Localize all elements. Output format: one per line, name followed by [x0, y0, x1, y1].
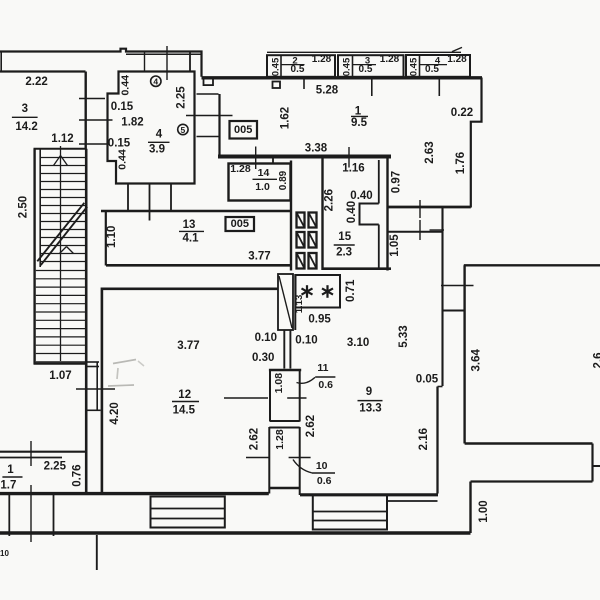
svg-text:005: 005 — [234, 124, 252, 136]
svg-text:2.3: 2.3 — [336, 246, 352, 258]
svg-text:4: 4 — [153, 77, 158, 87]
svg-text:0.45: 0.45 — [409, 57, 420, 76]
svg-text:2.63: 2.63 — [424, 141, 436, 163]
svg-text:2.6: 2.6 — [593, 353, 600, 369]
svg-text:11: 11 — [317, 362, 328, 374]
svg-text:4: 4 — [156, 129, 163, 141]
svg-text:0.5: 0.5 — [359, 64, 373, 75]
svg-text:4.1: 4.1 — [183, 233, 200, 245]
svg-text:2.62: 2.62 — [249, 428, 261, 450]
svg-text:1.00: 1.00 — [478, 500, 490, 522]
svg-text:1.12: 1.12 — [51, 133, 73, 145]
svg-text:0.44: 0.44 — [117, 149, 129, 170]
svg-text:0.5: 0.5 — [291, 64, 305, 75]
svg-text:1.28: 1.28 — [312, 54, 332, 65]
svg-text:1.05: 1.05 — [389, 234, 401, 257]
svg-text:0.71: 0.71 — [345, 279, 357, 302]
svg-text:0.6: 0.6 — [317, 475, 332, 487]
svg-text:2.25: 2.25 — [44, 460, 67, 472]
svg-text:3: 3 — [22, 103, 28, 115]
svg-text:1.62: 1.62 — [280, 107, 292, 129]
svg-text:0.30: 0.30 — [252, 352, 274, 364]
svg-text:1.08: 1.08 — [273, 373, 285, 394]
svg-text:1.82: 1.82 — [121, 117, 143, 129]
svg-text:2.26: 2.26 — [324, 189, 336, 211]
svg-text:3.77: 3.77 — [177, 340, 199, 352]
svg-text:3.64: 3.64 — [470, 349, 482, 372]
svg-text:1: 1 — [7, 464, 14, 476]
svg-text:1: 1 — [355, 106, 362, 118]
svg-text:0.10: 0.10 — [255, 332, 277, 344]
svg-text:1.28: 1.28 — [274, 429, 286, 450]
svg-text:10: 10 — [316, 460, 328, 472]
svg-text:005: 005 — [231, 218, 249, 230]
svg-text:1.16: 1.16 — [342, 163, 364, 175]
svg-text:0.89: 0.89 — [278, 170, 289, 190]
svg-text:0.76: 0.76 — [71, 464, 83, 486]
svg-text:1.76: 1.76 — [455, 152, 467, 174]
svg-text:3.10: 3.10 — [347, 337, 369, 349]
svg-text:12: 12 — [178, 389, 191, 401]
svg-text:2.25: 2.25 — [176, 86, 188, 109]
svg-text:14.2: 14.2 — [15, 121, 37, 133]
svg-text:0.22: 0.22 — [451, 107, 473, 119]
svg-text:5.33: 5.33 — [398, 325, 410, 347]
svg-text:4.20: 4.20 — [109, 402, 121, 424]
svg-text:2.62: 2.62 — [305, 415, 317, 437]
svg-text:1.28: 1.28 — [447, 54, 467, 65]
svg-text:5.28: 5.28 — [316, 85, 339, 97]
svg-text:9.5: 9.5 — [351, 117, 368, 129]
svg-text:0.6: 0.6 — [318, 379, 333, 391]
svg-text:0.97: 0.97 — [391, 171, 403, 193]
svg-text:0.15: 0.15 — [111, 101, 134, 113]
svg-text:2.50: 2.50 — [18, 196, 30, 218]
svg-text:14: 14 — [258, 167, 270, 179]
svg-text:13.3: 13.3 — [359, 402, 381, 414]
svg-text:1.0: 1.0 — [255, 181, 270, 193]
svg-text:10: 10 — [0, 549, 9, 558]
svg-text:13: 13 — [183, 219, 196, 231]
svg-text:0.05: 0.05 — [416, 374, 439, 386]
svg-text:0.40: 0.40 — [346, 201, 358, 223]
svg-text:3.9: 3.9 — [149, 144, 165, 156]
svg-text:3.38: 3.38 — [305, 143, 328, 155]
svg-text:1.7: 1.7 — [0, 480, 16, 492]
svg-text:0.45: 0.45 — [271, 57, 282, 76]
svg-text:9: 9 — [366, 386, 372, 398]
svg-text:2.16: 2.16 — [418, 428, 430, 450]
svg-text:1.10: 1.10 — [106, 226, 118, 248]
svg-text:5: 5 — [181, 125, 186, 135]
svg-text:3.77: 3.77 — [248, 250, 270, 262]
svg-text:15: 15 — [338, 231, 351, 243]
svg-text:0.15: 0.15 — [108, 138, 131, 150]
svg-text:0.45: 0.45 — [342, 57, 353, 76]
svg-text:0.40: 0.40 — [350, 190, 372, 202]
svg-text:1.07: 1.07 — [49, 370, 71, 382]
svg-text:2.22: 2.22 — [25, 76, 47, 88]
svg-text:0.5: 0.5 — [425, 64, 439, 75]
svg-text:1.28: 1.28 — [230, 163, 251, 175]
svg-text:0.10: 0.10 — [295, 335, 317, 347]
svg-text:14.5: 14.5 — [173, 405, 196, 417]
svg-text:0.95: 0.95 — [308, 314, 331, 326]
svg-text:0.44: 0.44 — [120, 75, 132, 96]
svg-text:1.13: 1.13 — [294, 295, 305, 314]
svg-text:1.28: 1.28 — [380, 54, 400, 65]
